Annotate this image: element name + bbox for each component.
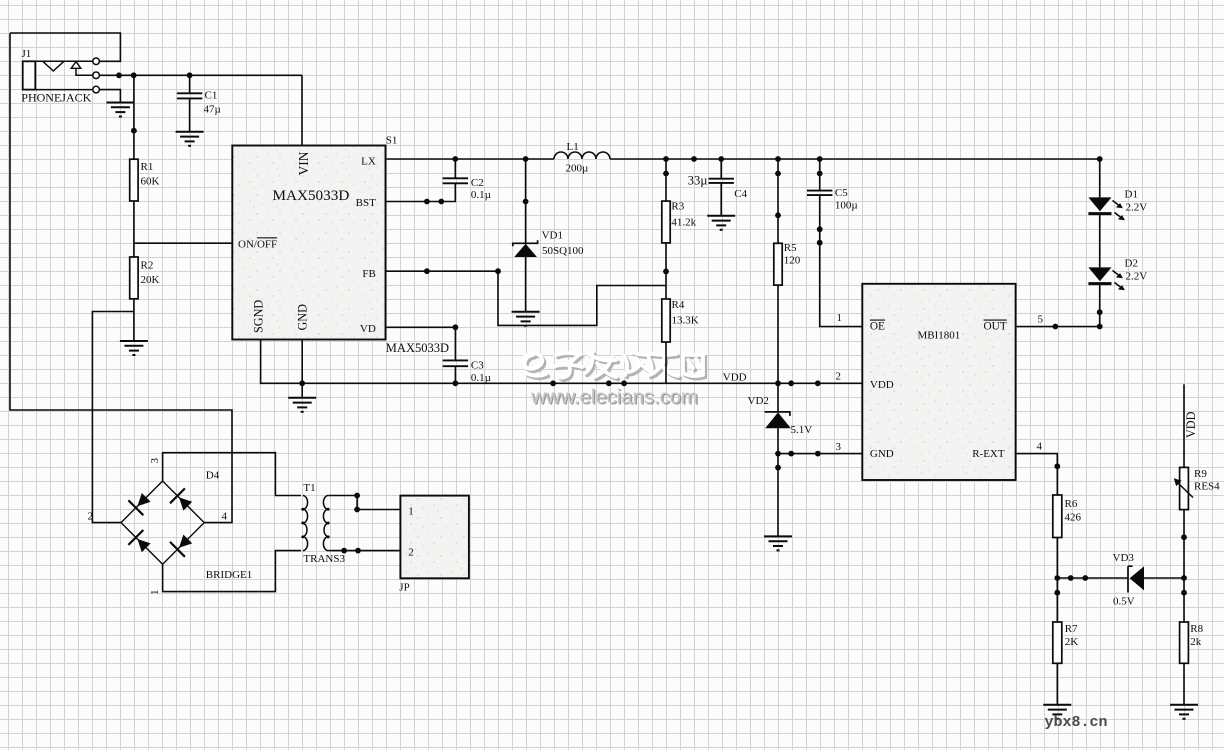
- svg-text:VD2: VD2: [748, 395, 769, 407]
- wire VD1 to ground: [525, 257, 527, 312]
- pin number 1: [837, 312, 843, 324]
- svg-text:MAX5033D: MAX5033D: [386, 341, 449, 355]
- terminal circle J1 pin 1: [93, 58, 100, 65]
- junction dot on R1 wire: [131, 128, 137, 134]
- svg-text:R5: R5: [784, 242, 797, 254]
- svg-text:GND: GND: [870, 448, 894, 460]
- label MAX5033D inside: [273, 187, 350, 204]
- svg-text:0.1µ: 0.1µ: [471, 189, 491, 201]
- svg-text:47µ: 47µ: [204, 104, 221, 116]
- junction dots below C5: [817, 226, 823, 245]
- pin label R-EXT: [972, 448, 1005, 460]
- junction dots at JP pin1 wire: [354, 493, 360, 513]
- svg-text:R7: R7: [1065, 623, 1078, 635]
- label R9: [1194, 468, 1207, 480]
- wire bridge pin 1 to T1 primary bottom: [163, 551, 301, 592]
- label VD1 value 50SQ100: [542, 245, 584, 257]
- label TRANS3: [303, 553, 345, 565]
- jack ring contact line: [35, 89, 92, 91]
- jack tip contact chevron: [43, 61, 64, 71]
- svg-text:OE: OE: [870, 321, 885, 333]
- junction dot above pin5: [1097, 309, 1103, 329]
- svg-text:SGND: SGND: [252, 300, 266, 333]
- junction dot at C3 top: [453, 324, 459, 330]
- diode VD1 50SQ100: [513, 240, 538, 257]
- pin label VD: [360, 323, 376, 335]
- svg-text:LX: LX: [361, 156, 376, 168]
- junction dot on pin 5 wire: [1053, 324, 1059, 330]
- wire C1 bottom: [189, 99, 191, 132]
- label C4 value 33u: [688, 174, 708, 188]
- wire main net down to D1: [1099, 159, 1101, 197]
- label VD1: [542, 230, 563, 242]
- wire VD3 to R8 node: [1144, 577, 1184, 579]
- svg-text:S1: S1: [386, 135, 398, 147]
- svg-text:PHONEJACK: PHONEJACK: [21, 91, 91, 105]
- svg-text:50SQ100: 50SQ100: [542, 245, 584, 257]
- terminal circle J1 pin 2: [93, 72, 100, 79]
- capacitor C5: [807, 191, 832, 196]
- jack sleeve contact line: [35, 60, 92, 62]
- pin number 1 rotated: [149, 590, 161, 596]
- label C2 value 0.1u: [471, 189, 491, 201]
- label C3 value 0.1u: [471, 372, 491, 384]
- wire R6 to R7: [1056, 538, 1058, 623]
- JP pin number 2: [408, 547, 414, 559]
- label MBI1801 inside: [918, 330, 961, 342]
- svg-text:R-EXT: R-EXT: [972, 448, 1005, 460]
- wire C4 to ground: [720, 183, 722, 216]
- ground below R8: [1170, 705, 1198, 719]
- op-amp U1 MAX5033D body: [232, 146, 385, 340]
- label R8 value 2k: [1190, 636, 1202, 648]
- ground below J1: [106, 103, 134, 117]
- svg-text:1: 1: [837, 312, 843, 324]
- wire GND pin 3: [778, 453, 862, 455]
- ground below MAX GND pin: [288, 398, 316, 412]
- terminal circle J1 pin 3: [93, 86, 100, 93]
- svg-text:120: 120: [784, 254, 801, 266]
- svg-text:D1: D1: [1125, 189, 1138, 201]
- ground below C1: [176, 132, 204, 146]
- svg-text:VD3: VD3: [1113, 552, 1135, 564]
- wire R1 to R2: [133, 201, 135, 257]
- resistor R9 RES4: [1174, 467, 1193, 509]
- label R2: [141, 260, 154, 272]
- wire C2 to BST: [386, 183, 456, 201]
- svg-text:ybx8.cn: ybx8.cn: [1045, 714, 1108, 731]
- svg-text:MAX5033D: MAX5033D: [273, 187, 350, 204]
- label MAX5033D part name below box: [386, 341, 449, 355]
- svg-text:TRANS3: TRANS3: [303, 553, 345, 565]
- label VD2 value 5.1V: [791, 424, 813, 436]
- junction dots on FB wire: [424, 268, 669, 274]
- bridge rectifier D4 diamond: [121, 481, 204, 564]
- junction dot on VD1 wire: [523, 199, 529, 205]
- svg-text:T1: T1: [303, 482, 315, 494]
- svg-text:D2: D2: [1125, 258, 1138, 270]
- label VD3 value 0.5V: [1113, 595, 1135, 607]
- junction dot below VD2: [775, 465, 781, 471]
- label R7: [1065, 623, 1078, 635]
- svg-text:R6: R6: [1065, 498, 1078, 510]
- svg-text:VD: VD: [360, 323, 376, 335]
- ground below R7: [1043, 705, 1071, 719]
- svg-text:www.elecians.com: www.elecians.com: [530, 386, 698, 408]
- svg-text:0.5V: 0.5V: [1113, 595, 1135, 607]
- svg-text:5: 5: [1038, 314, 1044, 326]
- pin number 4: [1037, 441, 1043, 453]
- label T1: [303, 482, 315, 494]
- wire R3 to R4: [665, 243, 667, 299]
- op-amp U2 MBI1801 body: [862, 284, 1015, 480]
- wire J1 bottom contact to ground: [100, 90, 121, 103]
- wire LX to L1: [386, 158, 555, 160]
- wire SGND down and VDD net: [261, 340, 863, 384]
- svg-text:20K: 20K: [141, 274, 160, 286]
- wire ON/OFF to divider: [134, 242, 232, 244]
- wire C5 to OE pin 1: [820, 195, 863, 326]
- pin label LX: [361, 156, 376, 168]
- wire bridge pin 3 to T1 primary top: [163, 453, 301, 496]
- pin label SGND: [252, 300, 266, 333]
- wire main net to R3: [665, 159, 667, 201]
- pin number 2: [836, 371, 842, 383]
- svg-text:2K: 2K: [1065, 636, 1079, 648]
- label R2 value 20K: [141, 274, 160, 286]
- label L1: [567, 141, 579, 153]
- svg-text:426: 426: [1065, 512, 1082, 524]
- svg-text:VIN: VIN: [296, 151, 311, 175]
- svg-text:GND: GND: [296, 304, 310, 331]
- transformer T1 primary winding: [301, 496, 307, 551]
- resistor R6: [1053, 495, 1062, 538]
- label L1 value 200u: [566, 163, 589, 175]
- label S1: [386, 135, 398, 147]
- wire T1 secondary top to JP pin 1: [328, 496, 400, 510]
- label PHONEJACK: [21, 91, 91, 105]
- label VD2: [748, 395, 769, 407]
- label R1 value 60K: [141, 176, 160, 188]
- svg-text:2: 2: [408, 547, 414, 559]
- svg-text:MBI1801: MBI1801: [918, 330, 961, 342]
- pin label FB: [362, 268, 375, 280]
- label R7 value 2K: [1065, 636, 1079, 648]
- pin number 2: [88, 511, 94, 523]
- bridge diode top-left: [128, 493, 150, 515]
- svg-text:OUT: OUT: [984, 321, 1007, 333]
- wire VD2 to ground: [777, 428, 779, 536]
- wire R6 node to VD3: [1057, 577, 1128, 579]
- wire R8 to ground: [1183, 663, 1185, 705]
- resistor R1: [130, 159, 138, 201]
- pin label GND: [296, 304, 310, 331]
- svg-text:C3: C3: [471, 360, 484, 372]
- svg-text:2k: 2k: [1190, 636, 1202, 648]
- svg-text:41.2k: 41.2k: [671, 217, 696, 229]
- junction dots on VDD net: [299, 380, 820, 386]
- watermark chinese text: [524, 352, 705, 380]
- svg-text:4: 4: [222, 511, 228, 523]
- wire OUT pin 5 to LED chain: [1016, 326, 1100, 328]
- wire D1 to D2: [1099, 214, 1101, 268]
- connector J1 phonejack body: [23, 61, 36, 89]
- svg-text:C4: C4: [734, 188, 747, 200]
- svg-text:RES4: RES4: [1194, 481, 1220, 493]
- wire R2 bottom to ground: [133, 299, 135, 341]
- pin label ON/OFF: [238, 238, 277, 250]
- svg-text:JP: JP: [399, 582, 409, 594]
- wire C1 top: [189, 75, 191, 93]
- label R6 value 426: [1065, 512, 1082, 524]
- wire R7 to ground: [1056, 663, 1058, 705]
- diode VD3: [1128, 566, 1144, 592]
- pin label VIN: [296, 151, 311, 175]
- label JP: [399, 582, 409, 594]
- wire main net to C4: [720, 159, 722, 179]
- bridge diode top-right: [170, 488, 192, 510]
- svg-text:5.1V: 5.1V: [791, 424, 813, 436]
- wire C3 to VDD net: [454, 366, 456, 383]
- wire GND pin to ground: [301, 340, 303, 398]
- label C1 value 47u: [204, 104, 221, 116]
- ground below R2: [120, 341, 148, 355]
- label C1: [205, 90, 218, 102]
- svg-text:R3: R3: [671, 201, 684, 213]
- wire L1 to D1 branch: [610, 158, 1100, 160]
- pin label BST: [356, 197, 376, 209]
- junction dots on pin 3 wire: [775, 451, 821, 457]
- label J1: [22, 48, 32, 60]
- svg-text:2: 2: [88, 511, 94, 523]
- svg-text:3: 3: [149, 458, 161, 464]
- junction dots at JP pin2 wire: [341, 548, 361, 554]
- pin number 4: [222, 511, 228, 523]
- junction dots on BST wire: [424, 199, 444, 205]
- svg-text:C1: C1: [205, 90, 218, 102]
- wire D2 to pin 5: [1099, 284, 1101, 327]
- watermark url: [530, 386, 699, 409]
- ground below C4: [707, 216, 735, 230]
- wire J1 middle contact to VIN: [100, 75, 302, 145]
- wire main net to C5: [819, 159, 821, 191]
- label D1 value 2.2V: [1126, 201, 1148, 213]
- label D2 value 2.2V: [1126, 270, 1148, 282]
- svg-text:C5: C5: [835, 187, 848, 199]
- svg-text:13.3K: 13.3K: [672, 315, 699, 327]
- svg-text:0.1µ: 0.1µ: [471, 372, 491, 384]
- JP pin number 1: [408, 506, 414, 518]
- ground below VD1: [512, 312, 540, 326]
- wire outer loop from J1 top contact to bridge pin 4: [10, 33, 232, 523]
- svg-text:D4: D4: [206, 470, 220, 482]
- svg-text:BST: BST: [356, 197, 376, 209]
- capacitor C3: [443, 360, 468, 366]
- ground below VD2: [764, 536, 792, 550]
- wire R5 to VD2: [777, 285, 779, 412]
- wire main net to C2: [454, 159, 456, 178]
- label D2: [1125, 258, 1138, 270]
- label D4: [206, 470, 220, 482]
- capacitor C1: [177, 93, 202, 98]
- junction dots on main output net: [452, 156, 1102, 162]
- label D1: [1125, 189, 1138, 201]
- label C4: [734, 188, 747, 200]
- svg-text:L1: L1: [567, 141, 579, 153]
- svg-text:4: 4: [1037, 441, 1043, 453]
- svg-text:2.2V: 2.2V: [1126, 201, 1148, 213]
- pin number 3: [836, 441, 842, 453]
- bridge diode bottom-left: [128, 530, 150, 552]
- label R6: [1065, 498, 1078, 510]
- junction dots below main net: [663, 171, 823, 177]
- wire net to R1: [133, 75, 135, 159]
- wire main net to R5: [777, 159, 779, 243]
- svg-text:3: 3: [836, 441, 842, 453]
- wire main net to VD1: [525, 159, 527, 243]
- capacitor C2: [443, 178, 468, 183]
- watermark ybx8.cn: [1045, 714, 1108, 731]
- inductor L1: [554, 152, 610, 159]
- wire FB to divider tap: [386, 271, 667, 325]
- resistor R5: [774, 243, 782, 285]
- svg-text:R9: R9: [1194, 468, 1207, 480]
- svg-text:R8: R8: [1190, 623, 1203, 635]
- svg-text:C2: C2: [471, 177, 484, 189]
- wire VD pin to C3: [386, 327, 456, 360]
- label VDD right rail: [1184, 411, 1198, 438]
- svg-text:200µ: 200µ: [566, 163, 589, 175]
- svg-text:60K: 60K: [141, 176, 160, 188]
- svg-text:2: 2: [836, 371, 842, 383]
- svg-text:VD1: VD1: [542, 230, 563, 242]
- label C5: [835, 187, 848, 199]
- svg-text:VDD: VDD: [870, 379, 894, 391]
- wire R9 to R8: [1183, 510, 1185, 622]
- zener diode VD2: [765, 412, 791, 428]
- LED D2: [1088, 267, 1125, 290]
- label R3 value 41.2k: [671, 217, 696, 229]
- wire R4 to VDD net: [665, 342, 667, 383]
- pin label OE: [870, 321, 885, 333]
- resistor R4: [662, 299, 670, 342]
- junction dots at VD3 node: [1054, 575, 1088, 596]
- junction dots on R9-R8 wire: [1181, 534, 1187, 595]
- junction dots on VIN wire: [116, 72, 192, 78]
- wire R2 bottom branch to bridge pin 2: [92, 312, 133, 523]
- pin label GND inside: [870, 448, 894, 460]
- svg-text:J1: J1: [22, 48, 32, 60]
- label C2: [471, 177, 484, 189]
- resistor R2: [130, 257, 138, 299]
- jack switch arrow contact: [71, 62, 93, 76]
- label C3: [471, 360, 484, 372]
- resistor R8: [1180, 622, 1189, 663]
- label VDD net: [723, 372, 747, 384]
- wire R-EXT pin 4 to R6: [1016, 454, 1058, 495]
- label R1: [141, 161, 154, 173]
- svg-text:1: 1: [408, 506, 414, 518]
- svg-text:ON/OFF: ON/OFF: [238, 238, 277, 250]
- svg-text:BRIDGE1: BRIDGE1: [206, 569, 252, 581]
- svg-text:R1: R1: [141, 161, 154, 173]
- label R9 value RES4: [1194, 481, 1220, 493]
- connector JP body: [400, 496, 469, 579]
- junction dot below pin 4: [1054, 463, 1060, 469]
- svg-text:R2: R2: [141, 260, 154, 272]
- svg-text:VDD: VDD: [1184, 411, 1198, 438]
- svg-text:1: 1: [149, 590, 161, 596]
- label R3: [671, 201, 684, 213]
- transformer T1 secondary winding: [323, 496, 329, 551]
- bridge diode bottom-right: [170, 535, 192, 557]
- svg-text:FB: FB: [362, 268, 375, 280]
- resistor R7: [1053, 622, 1062, 663]
- label R5: [784, 242, 797, 254]
- resistor R3: [662, 201, 670, 243]
- svg-text:R4: R4: [672, 299, 685, 311]
- wire T1 secondary bottom to JP pin 2: [328, 550, 400, 552]
- label R5 value 120: [784, 254, 801, 266]
- wire VDD rail to R9: [1183, 384, 1185, 467]
- LED D1: [1088, 197, 1125, 220]
- pin number 3 rotated: [149, 458, 161, 464]
- label BRIDGE1: [206, 569, 252, 581]
- junction dot above R5: [775, 212, 781, 218]
- pin number 5: [1038, 314, 1044, 326]
- label R8: [1190, 623, 1203, 635]
- label VD3: [1113, 552, 1135, 564]
- pin label VDD inside: [870, 379, 894, 391]
- capacitor C4: [709, 179, 734, 183]
- svg-text:100µ: 100µ: [835, 200, 858, 212]
- svg-text:33µ: 33µ: [688, 174, 708, 188]
- svg-text:2.2V: 2.2V: [1126, 270, 1148, 282]
- pin label OUT: [984, 321, 1007, 333]
- svg-text:VDD: VDD: [723, 372, 747, 384]
- label C5 value 100u: [835, 200, 858, 212]
- label R4: [672, 299, 685, 311]
- label R4 value 13.3K: [672, 315, 699, 327]
